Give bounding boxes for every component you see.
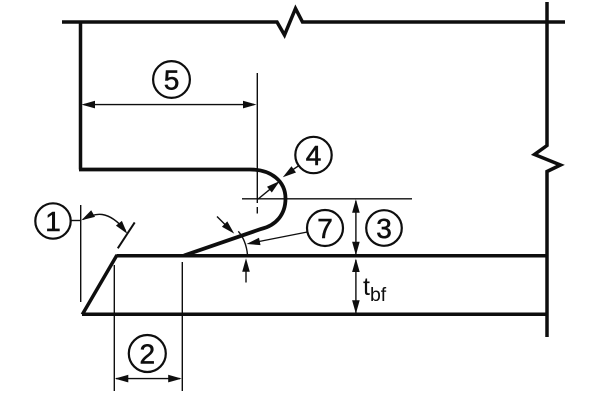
balloon 7 leader with arrowhead — [259, 232, 307, 242]
radius horizontal centerline — [242, 198, 412, 200]
balloon circle 1 — [35, 203, 70, 238]
bevel direction tick — [118, 222, 135, 248]
beam top flange line with break symbol — [62, 9, 565, 36]
svg-text:1: 1 — [45, 206, 61, 237]
svg-text:2: 2 — [140, 339, 156, 370]
bevel angle arc with arrowheads — [83, 214, 126, 230]
balloon circle 2 — [129, 335, 166, 372]
extension line below web edge — [80, 205, 82, 302]
radius arrow from centerlines crossing — [258, 187, 274, 200]
balloon circle 5 — [153, 61, 190, 98]
radius vertical centerline — [256, 73, 258, 214]
flange end bevel cut — [82, 255, 117, 315]
svg-text:4: 4 — [306, 140, 322, 171]
svg-text:5: 5 — [164, 65, 180, 96]
balloon circle 3 — [366, 210, 402, 246]
beam bottom flange bottom edge — [82, 313, 548, 317]
dimension 5 left arrowhead — [82, 101, 96, 109]
svg-text:3: 3 — [376, 213, 392, 244]
balloon 4 leader with arrowhead — [287, 166, 299, 174]
svg-text:7: 7 — [317, 213, 333, 244]
dimension 3 top arrowhead — [352, 199, 360, 213]
beam web vertical cut edge — [79, 21, 83, 170]
dimension 2 right arrowhead — [168, 375, 182, 383]
dimension tbf top arrowhead — [352, 259, 360, 273]
toe tangent arc — [238, 231, 247, 256]
extension line at bevel top — [113, 265, 115, 391]
dimension 3 line — [355, 201, 357, 254]
dimension 3 bottom arrowhead — [352, 242, 360, 256]
weld access hole top cut and hooked radius into sloped face — [79, 170, 286, 256]
beam bottom flange top edge — [117, 254, 548, 258]
toe tangent point arrow — [245, 263, 247, 283]
dimension 2 line — [116, 378, 180, 380]
balloon 1 leader — [71, 220, 81, 222]
dimension 2 left arrowhead — [115, 375, 129, 383]
dimension tbf bottom arrowhead — [352, 300, 360, 314]
svg-text:tbf: tbf — [363, 273, 387, 306]
balloon circle 4 — [295, 137, 331, 173]
dimension tbf line — [355, 260, 357, 313]
column face vertical line with break symbol — [535, 2, 561, 337]
balloon circle 7 — [307, 210, 343, 246]
dimension 5 right arrowhead — [243, 101, 257, 109]
extension line at slope toe — [181, 262, 183, 391]
dimension 5 line — [84, 104, 254, 106]
slope face arrow — [217, 217, 228, 228]
